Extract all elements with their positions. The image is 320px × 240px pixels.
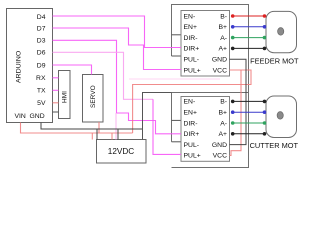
svg-text:D7: D7 — [37, 25, 46, 32]
svg-text:5V: 5V — [37, 100, 46, 107]
svg-text:B+: B+ — [218, 24, 227, 31]
svg-text:ARDUINO: ARDUINO — [16, 51, 23, 83]
red branch U1 VCC to U2 VCC — [230, 70, 242, 155]
SERVO box — [83, 75, 104, 123]
svg-text:B-: B- — [220, 13, 227, 20]
red riser to drivers — [133, 70, 251, 133]
svg-text:A+: A+ — [218, 131, 227, 138]
svg-text:VCC: VCC — [213, 67, 227, 74]
12VDC box — [97, 140, 147, 164]
wire D3 to U2 DIR+ — [53, 40, 182, 134]
svg-text:DIR+: DIR+ — [184, 46, 200, 53]
motor M1 wire B- red — [233, 15, 265, 17]
wire TX to HMI — [53, 89, 59, 91]
svg-text:DIR+: DIR+ — [184, 131, 200, 138]
wire D4 to U1 DIR+ — [53, 16, 182, 48]
svg-text:DIR-: DIR- — [184, 35, 198, 42]
motor M2 wire A+ black — [233, 133, 265, 135]
svg-text:D4: D4 — [37, 14, 46, 21]
svg-text:B-: B- — [220, 99, 227, 106]
driver U1 tick PUL- — [172, 55, 182, 57]
svg-text:PUL-: PUL- — [184, 57, 200, 64]
svg-text:DIR-: DIR- — [184, 120, 198, 127]
feeder motor M1 — [250, 11, 299, 65]
wire VIN red to 12VDC — [21, 123, 133, 134]
motor M2 wire B- black — [233, 100, 265, 102]
svg-text:TX: TX — [37, 88, 46, 95]
driver U1 terminal block — [181, 11, 230, 77]
motor M1 wire A+ black — [233, 47, 265, 49]
svg-text:12VDC: 12VDC — [108, 147, 134, 156]
black stub 2 into 12VDC — [117, 129, 119, 140]
svg-text:GND: GND — [212, 57, 227, 64]
wire D7 to U1 PUL+ — [53, 28, 182, 70]
motor M2 wire A- green — [233, 122, 265, 124]
svg-text:A+: A+ — [218, 46, 227, 53]
motor M2 wire B+ blue — [233, 111, 265, 113]
cutter motor M2 — [250, 96, 299, 150]
driver U2 tick DIR- — [172, 119, 182, 121]
svg-text:SERVO: SERVO — [90, 85, 97, 108]
motor M1 wire A- green — [233, 37, 265, 39]
driver U1 tick DIR- — [172, 34, 182, 36]
svg-text:EN+: EN+ — [184, 110, 197, 117]
driver U1 outer outline — [172, 5, 249, 93]
svg-text:EN-: EN- — [184, 99, 196, 106]
svg-text:VIN: VIN — [15, 113, 26, 120]
svg-text:RX: RX — [36, 75, 46, 82]
svg-text:PUL-: PUL- — [184, 142, 200, 149]
HMI box — [59, 71, 71, 119]
black riser 12VDC to driver bus — [143, 93, 172, 140]
wire D9 to servo — [53, 65, 92, 75]
red servo power stub — [98, 122, 100, 133]
svg-text:FEEDER MOT: FEEDER MOT — [250, 57, 299, 66]
wire RX to HMI — [53, 77, 59, 79]
wire D6 to U2 PUL+ part2 — [153, 99, 181, 154]
svg-text:VCC: VCC — [213, 153, 227, 160]
black stub into 12VDC minus — [96, 129, 98, 140]
wire gnd to HMI black — [53, 111, 59, 113]
red stub 2 into 12VDC — [111, 133, 113, 140]
driver U2 terminal block — [181, 97, 230, 162]
wire 5V to HMI red — [53, 102, 59, 104]
svg-text:GND: GND — [212, 142, 227, 149]
svg-text:A-: A- — [220, 120, 227, 127]
motor M1 wire B+ blue — [233, 26, 265, 28]
svg-text:EN-: EN- — [184, 13, 196, 20]
svg-text:CUTTER MOT: CUTTER MOT — [250, 141, 299, 150]
svg-text:D3: D3 — [37, 38, 46, 45]
svg-text:A-: A- — [220, 35, 227, 42]
wire GND black to 12VDC — [41, 123, 143, 130]
arduino box — [7, 9, 53, 123]
svg-text:GND: GND — [30, 113, 45, 120]
pink floating wire — [129, 78, 220, 80]
svg-text:D6: D6 — [37, 50, 46, 57]
wire D6 to U2 PUL+ part1 — [53, 52, 154, 99]
svg-text:PUL+: PUL+ — [184, 67, 201, 74]
red stub into 12VDC plus — [91, 133, 93, 140]
svg-text:PUL+: PUL+ — [184, 153, 201, 160]
svg-text:EN+: EN+ — [184, 24, 197, 31]
svg-text:D9: D9 — [37, 62, 46, 69]
wire U1 GND down to U2 GND — [230, 59, 247, 144]
driver U2 outer outline — [172, 93, 249, 168]
svg-text:B+: B+ — [218, 110, 227, 117]
svg-text:HMI: HMI — [62, 91, 69, 103]
faint pink stub into 12VDC — [115, 113, 117, 140]
driver U2 tick PUL- — [172, 141, 182, 143]
